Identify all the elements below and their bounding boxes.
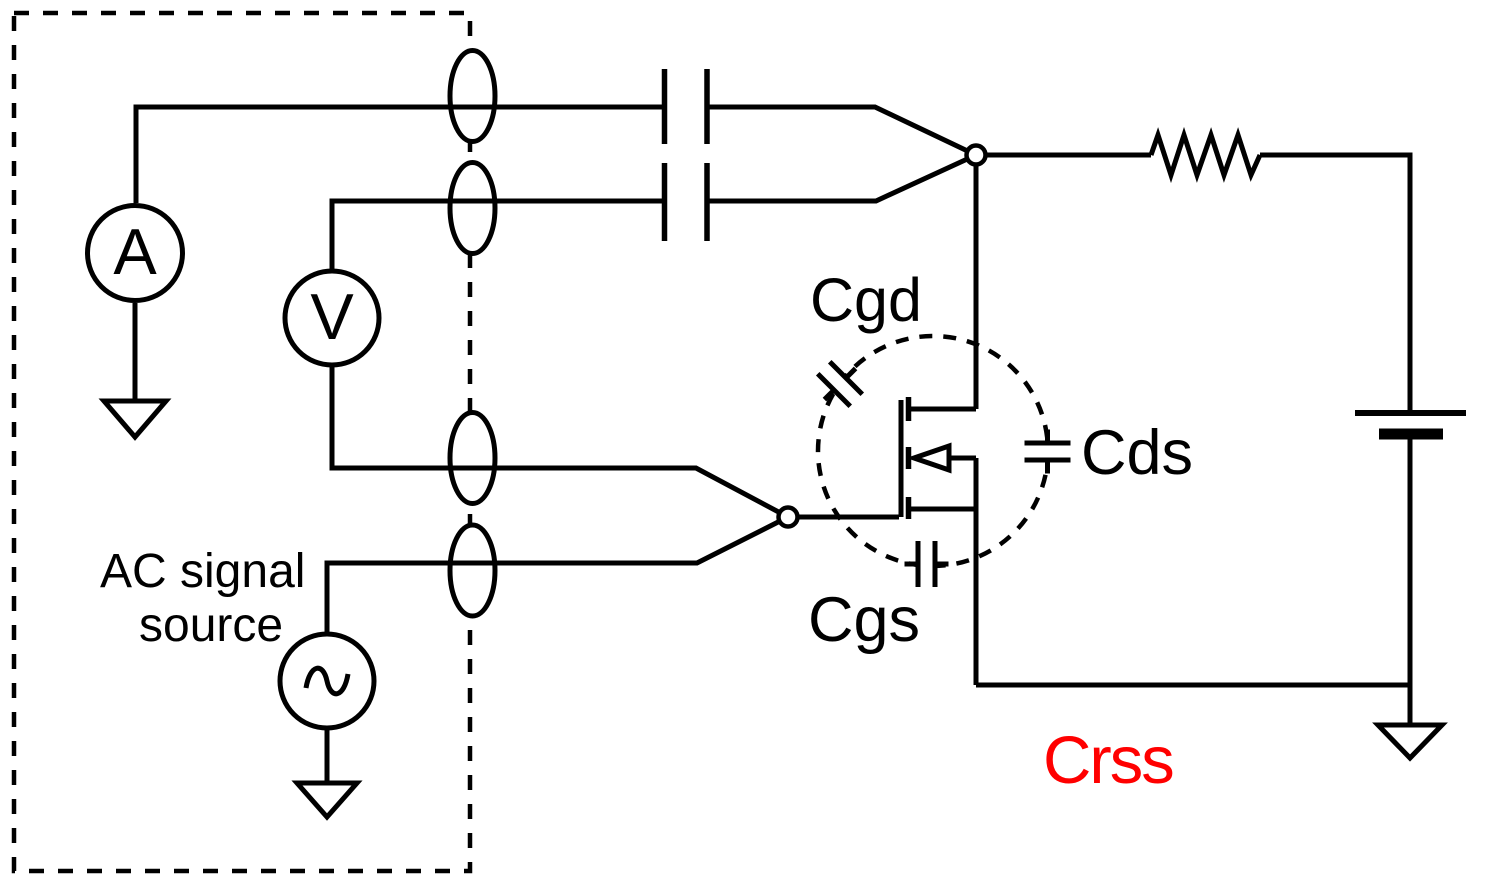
capacitor Cds symbol [1024, 430, 1072, 474]
wire MOSFET source/body down to bottom rail [974, 458, 979, 685]
MOSFET Q1 gate bar [899, 400, 904, 517]
svg-text:source: source [139, 599, 283, 652]
capacitor Cgs symbol [905, 540, 949, 588]
coax bead ellipse E3 [450, 413, 495, 504]
ammeter A [88, 206, 183, 301]
coax bead ellipse E2 [450, 163, 495, 254]
summing node [967, 146, 986, 165]
wire capacitor C1 to summing node [707, 107, 976, 155]
wire bottom rail [976, 683, 1410, 688]
capacitor Cgd symbol [807, 351, 872, 416]
svg-text:AC signal: AC signal [100, 545, 305, 598]
ground right side [1378, 725, 1442, 758]
AC source circle [280, 634, 374, 728]
capacitor C2 plates [665, 163, 708, 241]
battery B1 [1355, 413, 1466, 434]
coax bead ellipse E4 [450, 525, 495, 616]
wire voltmeter top to capacitor C2 [332, 201, 664, 271]
ground under ammeter [104, 401, 166, 437]
ground under AC source [297, 783, 357, 817]
instrument boundary dashed box [14, 13, 470, 871]
wire gate node to MOSFET gate [788, 515, 899, 520]
wire ammeter to capacitor C1 [136, 107, 664, 203]
wire battery to ground [1408, 436, 1413, 723]
capacitor C1 plates [665, 69, 708, 144]
svg-text:Cgd: Cgd [810, 266, 922, 334]
wire AC source to ground [325, 730, 330, 781]
MOSFET Q1 source lead [911, 507, 976, 512]
wire voltmeter bottom to gate node [332, 366, 788, 517]
svg-text:Crss: Crss [1043, 723, 1173, 798]
wire AC source to gate node [327, 517, 788, 632]
MOSFET Q1 body lead and arrow [914, 446, 976, 470]
resistor R1 [1151, 135, 1260, 175]
gate node [779, 508, 798, 527]
MOSFET Q1 drain lead [911, 407, 976, 412]
wire node to MOSFET drain [974, 155, 979, 409]
wire resistor to battery [1260, 155, 1410, 410]
dashed circle around MOSFET [818, 336, 1048, 566]
wire ammeter to ground [133, 303, 138, 399]
MOSFET Q1 channel segments [906, 397, 912, 519]
voltmeter V [285, 271, 379, 365]
svg-text:Cds: Cds [1081, 418, 1193, 488]
svg-text:A: A [113, 215, 157, 288]
wire node to resistor and down right side [976, 153, 1151, 158]
coax bead ellipse E1 [450, 51, 495, 142]
svg-text:Cgs: Cgs [808, 585, 920, 655]
svg-text:V: V [310, 280, 354, 353]
wire capacitor C2 to summing node [707, 155, 976, 201]
